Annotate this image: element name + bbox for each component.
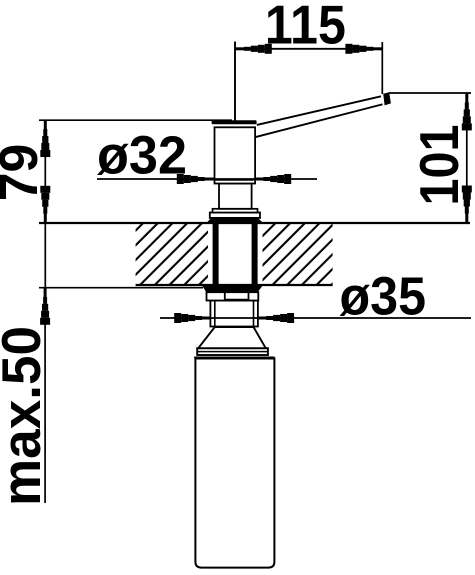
pump neck tube [210,301,258,327]
countertop hole (white window) [208,224,263,284]
max.50 extension line [39,287,203,289]
countertop hatched cross-section [136,223,333,285]
extension line: 79 top (head cap level) [39,119,232,121]
arrowhead o32 pointing right at cylinder left wall [177,174,214,184]
svg-text:ø32: ø32 [97,127,187,186]
cylinder bottom band line [214,179,254,181]
washer under counter (black) [202,285,264,293]
dimension line 101 [466,94,468,222]
arrowhead 79 up [40,120,50,157]
base ring lower step [210,213,260,218]
spout tip cap (black) [383,92,391,105]
countertop top surface line with extension to 79 and 101 dims [39,222,470,224]
base ring upper step [213,209,258,213]
arrowhead o35 pointing right at neck left wall [174,313,211,323]
bottle shoulder line [194,357,274,359]
dimension line o32 [97,178,317,180]
spout lower line [255,104,383,137]
svg-text:ø35: ø35 [340,268,427,327]
svg-text:115: 115 [265,0,346,56]
dimension line o35 [160,317,471,319]
arrowhead 115 left [235,44,272,54]
extension line: 101 top (from spout tip) [389,92,471,94]
arrowhead o32 pointing left at cylinder right wall [254,174,291,184]
threaded shank right wall (black) [252,223,258,285]
base flange on counter (black) [207,218,264,223]
main pump head cylinder [215,127,256,183]
arrowhead 101 down [462,186,472,223]
lower narrow cylinder [219,184,252,209]
arrowhead 115 right [345,44,382,54]
svg-text:101: 101 [408,125,470,206]
extension line: 115 right (spout tip) [381,42,383,94]
bottle body [195,359,274,568]
funnel cone [198,327,265,348]
dimension line 115 [235,48,382,50]
locknut [207,292,259,300]
arrowhead max.50 up [40,288,50,325]
countertop bottom surface line [136,284,333,286]
head cap [212,120,257,124]
extension line: 115 left (dispenser axis) [234,42,236,122]
arrowhead 79 down [40,186,50,223]
arrowhead 101 up [462,94,472,131]
svg-text:79: 79 [0,144,49,202]
bottle collar / funnel lip [197,348,268,355]
spout upper line [257,96,381,125]
svg-text:max.50: max.50 [0,326,52,506]
dimension line max.50 [44,289,46,503]
threaded shank left wall (black) [213,223,219,285]
arrowhead o35 pointing left at neck right wall [257,313,294,323]
dimension line 79 [44,120,46,288]
